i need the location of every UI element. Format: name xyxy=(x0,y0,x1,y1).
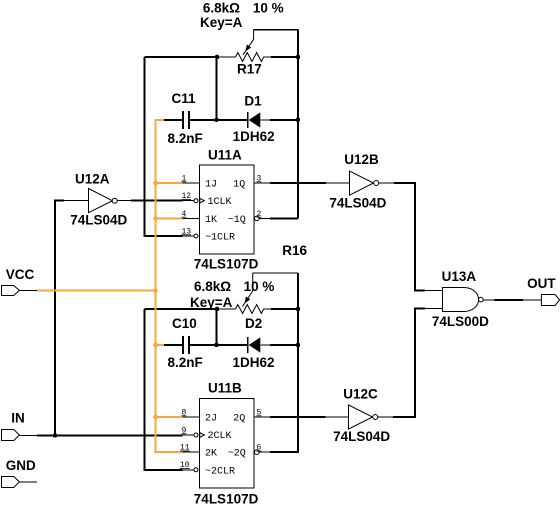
op-amp U12B inverter xyxy=(350,171,379,195)
svg-text:6.8kΩ: 6.8kΩ xyxy=(194,279,231,294)
svg-text:10 %: 10 % xyxy=(244,279,275,294)
junction C10 D2 xyxy=(214,343,219,348)
wire U12A input lead xyxy=(64,200,88,202)
flip-flop U11A box xyxy=(199,165,254,254)
potentiometer R16 xyxy=(217,273,271,313)
svg-text:1: 1 xyxy=(182,174,187,183)
svg-text:~2Q: ~2Q xyxy=(228,449,246,460)
diode D1 xyxy=(248,112,261,128)
pin bubble ~1Q xyxy=(254,216,259,221)
wire U12B input lead xyxy=(326,182,350,184)
potentiometer R17 xyxy=(217,30,271,62)
capacitor C10 xyxy=(183,336,189,354)
clock triangle 2CLK xyxy=(200,433,205,438)
junction R17 left xyxy=(215,55,220,60)
wire U13A bottom input lead xyxy=(425,308,442,310)
wire U12B output lead xyxy=(379,182,395,184)
wire U13A to OUT xyxy=(494,299,523,301)
svg-text:D2: D2 xyxy=(245,316,262,331)
wire orange to pin11 2K xyxy=(155,451,183,453)
wire left vertical to ~1CLR xyxy=(145,57,183,236)
wire U13A top input lead xyxy=(425,290,442,292)
wire C10 to node xyxy=(164,344,182,346)
wire pin8 lead xyxy=(183,416,200,418)
wire U13A output lead xyxy=(483,299,494,301)
diode D2 xyxy=(248,337,261,353)
wire R17 right segment xyxy=(271,56,298,58)
wire U12A output to 1CLK xyxy=(131,200,183,202)
svg-text:C11: C11 xyxy=(172,91,197,106)
junction D1 right xyxy=(296,118,301,123)
junction R16 right xyxy=(296,307,301,312)
junction D2 right xyxy=(296,343,301,348)
svg-text:3: 3 xyxy=(257,174,262,183)
wire U12C output to U13A bottom input xyxy=(393,309,425,418)
pin bubble ~2Q xyxy=(254,450,259,455)
wire pin2 lead xyxy=(259,217,270,219)
junction orange VCC xyxy=(153,288,158,293)
svg-text:74LS04D: 74LS04D xyxy=(70,213,127,228)
svg-text:1CLK: 1CLK xyxy=(208,197,232,208)
svg-text:4: 4 xyxy=(182,210,187,219)
wire D2 to right vertical xyxy=(270,344,298,346)
svg-text:C10: C10 xyxy=(172,316,197,331)
wire C10 right to D2 xyxy=(190,344,247,346)
wire orange to pin4 1K xyxy=(155,217,183,219)
clock triangle 1CLK xyxy=(200,198,205,203)
wire R17 wiper to top xyxy=(254,29,298,31)
wire R16 wiper to top xyxy=(253,272,298,274)
junction orange C10 xyxy=(153,343,158,348)
svg-text:~1CLR: ~1CLR xyxy=(205,233,235,244)
wire R17 left segment xyxy=(145,56,218,58)
junction C11 D1 xyxy=(214,118,219,123)
svg-text:1DH62: 1DH62 xyxy=(233,355,275,370)
wire R16 left segment xyxy=(145,308,218,310)
wire VCC connector lead xyxy=(19,289,37,291)
svg-text:R17: R17 xyxy=(237,62,262,77)
wire orange vertical net xyxy=(155,120,157,452)
wire pin3 lead xyxy=(254,182,270,184)
wire U12C input lead xyxy=(326,416,349,418)
pin bubble 2CLK xyxy=(194,433,198,437)
node OUT connector xyxy=(541,295,559,306)
junction orange pin1 xyxy=(153,181,158,186)
svg-text:10: 10 xyxy=(180,461,190,470)
svg-text:2K: 2K xyxy=(205,449,217,460)
svg-text:VCC: VCC xyxy=(6,267,35,282)
wire pin12 lead xyxy=(183,200,194,202)
svg-text:U12A: U12A xyxy=(75,171,110,186)
wire GND stub xyxy=(19,481,37,483)
wire ~1Q to right vertical xyxy=(270,217,298,219)
svg-text:2Q: 2Q xyxy=(233,414,245,425)
wire C11 right to D1 xyxy=(190,119,247,121)
pin bubble ~2CLR xyxy=(194,468,198,472)
svg-text:13: 13 xyxy=(182,227,192,236)
wire OUT connector lead xyxy=(523,299,542,301)
svg-text:1DH62: 1DH62 xyxy=(233,129,275,144)
op-amp U12C inverter xyxy=(349,405,378,429)
wire C11 to node xyxy=(164,119,182,121)
wire R17 line down to C11 line xyxy=(216,57,218,120)
wire pin1 lead xyxy=(183,182,200,184)
svg-text:74LS04D: 74LS04D xyxy=(333,429,390,444)
svg-text:U11A: U11A xyxy=(208,148,242,163)
svg-text:74LS107D: 74LS107D xyxy=(194,492,259,507)
wire 1Q to U12B xyxy=(270,182,326,184)
junction R16 left xyxy=(215,307,220,312)
wire orange to pin1 1J xyxy=(155,182,183,184)
node VCC connector xyxy=(2,286,20,296)
wire D2 lead right xyxy=(261,344,271,346)
wire R16 right segment xyxy=(271,308,298,310)
flip-flop U11B box xyxy=(199,399,254,489)
junction IN node xyxy=(53,433,58,438)
svg-text:~2CLR: ~2CLR xyxy=(205,466,235,477)
svg-text:U12C: U12C xyxy=(343,387,378,402)
wire IN connector lead xyxy=(19,435,37,437)
svg-text:U12B: U12B xyxy=(344,152,379,167)
svg-text:1K: 1K xyxy=(205,215,217,226)
wire IN up to U12A input xyxy=(55,201,64,436)
wire U12B output to U13A top input xyxy=(394,183,425,291)
wire pin10 lead xyxy=(183,469,194,471)
svg-text:2: 2 xyxy=(257,210,262,219)
svg-text:2J: 2J xyxy=(205,414,217,425)
svg-text:8: 8 xyxy=(182,408,187,417)
svg-text:8.2nF: 8.2nF xyxy=(168,131,203,146)
svg-text:IN: IN xyxy=(11,410,24,425)
svg-text:GND: GND xyxy=(6,458,36,473)
junction orange pin8 xyxy=(153,415,158,420)
wire orange to pin8 2J xyxy=(155,416,183,418)
op-amp U12A inverter xyxy=(89,189,118,213)
wire U12C output lead xyxy=(378,416,394,418)
svg-text:74LS00D: 74LS00D xyxy=(432,314,489,329)
capacitor C11 xyxy=(183,111,189,129)
wire right vertical bottom block (R16/D2 to ~2Q) xyxy=(270,273,298,452)
svg-text:12: 12 xyxy=(182,192,192,201)
svg-text:10 %: 10 % xyxy=(253,1,284,16)
svg-text:Key=A: Key=A xyxy=(190,295,233,310)
wire orange to C11 xyxy=(155,119,165,121)
svg-text:6: 6 xyxy=(257,444,262,453)
svg-text:2CLK: 2CLK xyxy=(208,431,232,442)
pin bubble 1CLK xyxy=(194,199,198,203)
wire R16 line down to C10 line xyxy=(216,309,218,345)
pin bubble ~1CLR xyxy=(194,234,198,238)
wire right vertical top block (R17/D1 to ~1Q) xyxy=(297,30,299,219)
svg-text:U13A: U13A xyxy=(442,269,477,284)
node IN connector xyxy=(2,430,20,441)
wire VCC orange xyxy=(37,289,157,291)
svg-text:U11B: U11B xyxy=(208,381,242,396)
svg-text:Key=A: Key=A xyxy=(200,15,243,30)
svg-text:74LS04D: 74LS04D xyxy=(329,196,386,211)
svg-text:8.2nF: 8.2nF xyxy=(168,355,203,370)
wire D1 to right vertical xyxy=(270,119,298,121)
wire pin13 lead xyxy=(183,235,194,237)
svg-text:OUT: OUT xyxy=(527,276,556,291)
svg-text:6.8kΩ: 6.8kΩ xyxy=(203,1,240,16)
svg-text:9: 9 xyxy=(182,426,187,435)
svg-text:1Q: 1Q xyxy=(233,180,245,191)
wire U12A output lead xyxy=(117,200,131,202)
svg-text:R16: R16 xyxy=(282,243,307,258)
wire pin5 lead xyxy=(254,416,270,418)
wire D1 lead right xyxy=(261,119,271,121)
wire pin6 lead xyxy=(259,451,270,453)
wire pin11 lead xyxy=(183,451,200,453)
junction orange pin4 xyxy=(153,216,158,221)
nand gate U13A xyxy=(443,288,484,312)
svg-text:5: 5 xyxy=(257,408,262,417)
wire pin4 lead xyxy=(183,217,200,219)
svg-text:11: 11 xyxy=(180,444,190,453)
wire left vertical to ~2CLR xyxy=(145,309,183,470)
svg-text:~1Q: ~1Q xyxy=(228,215,246,226)
wire orange to C10 xyxy=(155,344,165,346)
svg-text:1J: 1J xyxy=(205,180,217,191)
svg-text:D1: D1 xyxy=(244,93,262,108)
wire 2Q to U12C xyxy=(270,416,326,418)
junction R17 right xyxy=(296,55,301,60)
wire pin9 lead xyxy=(183,434,194,436)
ground GND connector xyxy=(2,477,20,488)
svg-text:74LS107D: 74LS107D xyxy=(194,257,259,272)
wire IN to 2CLK xyxy=(37,435,183,437)
